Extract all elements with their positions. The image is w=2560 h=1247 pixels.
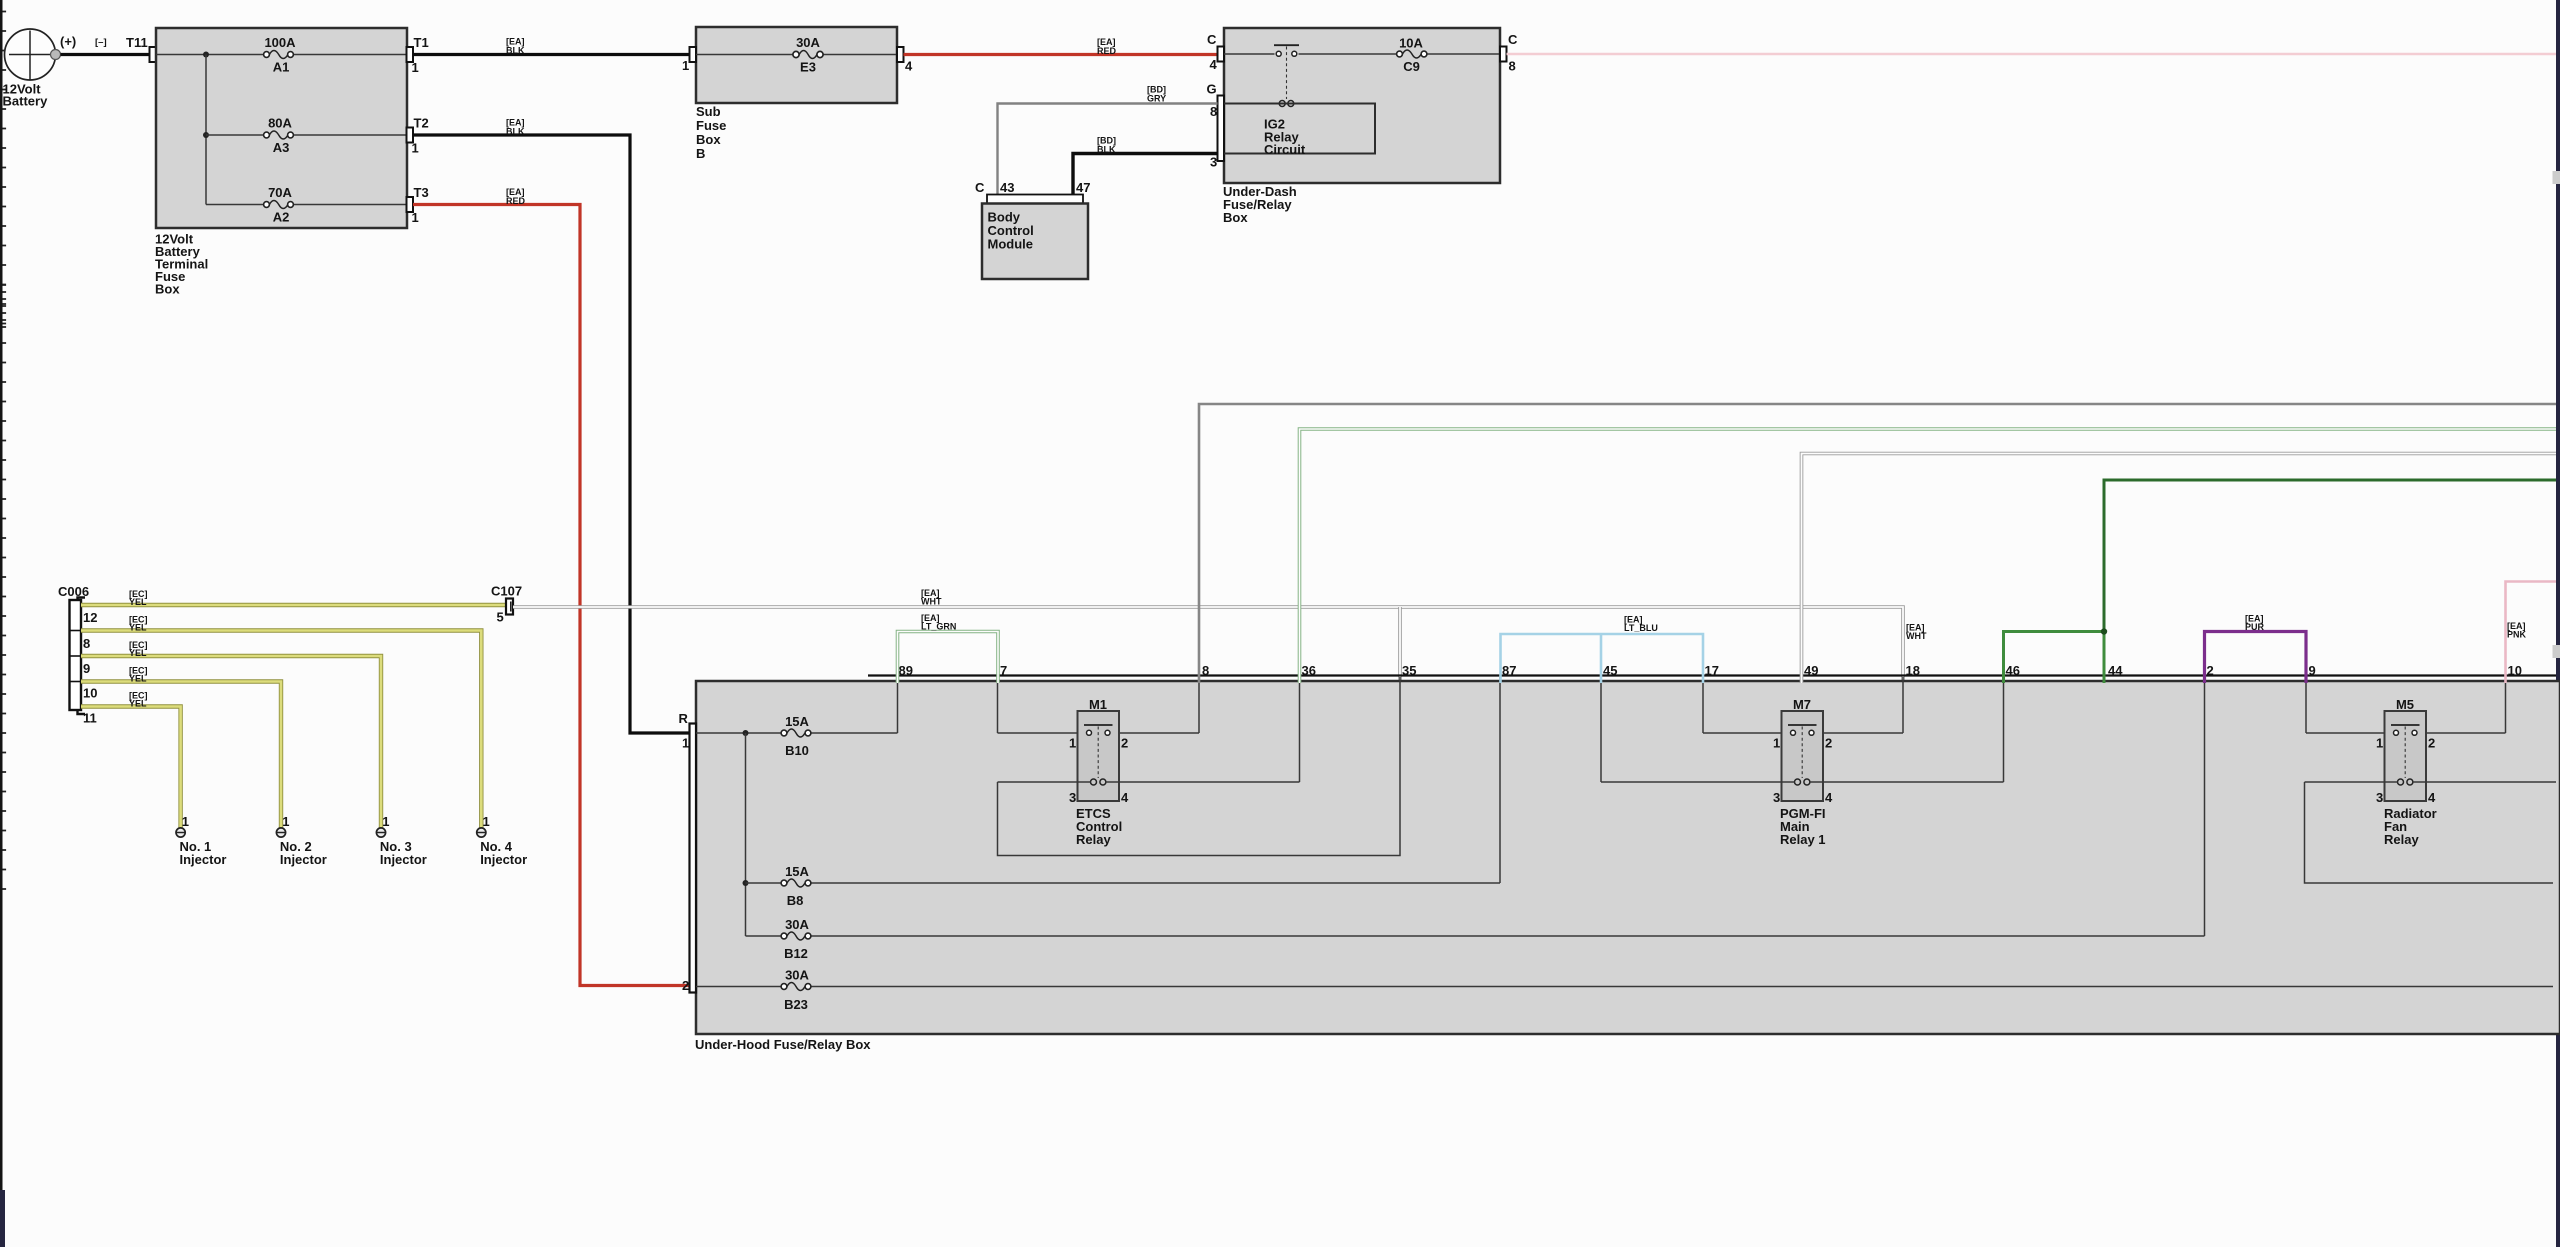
pin labels on bus bar [899, 663, 2522, 678]
svg-text:C107: C107 [491, 584, 522, 599]
connector C006 [58, 584, 97, 726]
svg-text:15A: 15A [785, 864, 809, 879]
svg-text:18: 18 [1906, 663, 1920, 678]
svg-text:4: 4 [2428, 790, 2436, 805]
svg-text:WHT: WHT [921, 597, 942, 607]
svg-text:87: 87 [1502, 663, 1516, 678]
svg-text:11: 11 [83, 711, 97, 726]
wire row A1 [156, 54, 264, 56]
svg-text:2: 2 [2207, 663, 2214, 678]
wire yellow C006-11 to No.1 injector [EC] YEL [81, 691, 181, 829]
svg-text:BLK: BLK [506, 127, 525, 137]
svg-text:8: 8 [1210, 104, 1217, 119]
svg-text:2: 2 [1825, 736, 1832, 751]
pin 1 of Sub Fuse Box [682, 47, 696, 73]
svg-text:A2: A2 [273, 210, 290, 225]
wire fuse row B12 [746, 935, 782, 937]
wire light green loop pin 89 to pin 7 [EA] LT_GRN [898, 613, 999, 683]
wire white pin 49 up to right edge [1802, 454, 2557, 684]
wire yellow C006-8 to No.4 injector [EC] YEL [81, 615, 481, 829]
svg-text:1: 1 [412, 60, 419, 75]
svg-text:1: 1 [1773, 736, 1780, 751]
svg-text:7: 7 [1000, 663, 1007, 678]
relay IG2 contact [1274, 45, 1299, 99]
svg-text:Relay 1: Relay 1 [1780, 832, 1826, 847]
svg-text:1: 1 [282, 814, 289, 829]
No. 4 Injector [477, 814, 527, 867]
box 12Volt Battery Terminal Fuse Box [155, 28, 407, 297]
wire yellow C006-9 to No.3 injector [EC] YEL [81, 640, 381, 828]
fuse A1 100A [264, 35, 297, 75]
svg-text:C: C [1207, 32, 1217, 47]
wire fuse row B10 [696, 732, 781, 734]
svg-text:100A: 100A [264, 35, 296, 50]
svg-text:35: 35 [1402, 663, 1416, 678]
svg-text:Module: Module [988, 237, 1034, 252]
svg-text:30A: 30A [785, 917, 809, 932]
wire riser M7 coil to pin 46 [2003, 677, 2005, 782]
svg-text:C9: C9 [1403, 59, 1420, 74]
wire riser B12 to pin 2 top [2204, 677, 2206, 936]
svg-text:M1: M1 [1089, 697, 1107, 712]
wire E3 to Under-Dash box [EA] RED [904, 37, 1219, 56]
fuse B8 15A [781, 864, 811, 908]
svg-text:2: 2 [2428, 736, 2435, 751]
svg-text:89: 89 [899, 663, 913, 678]
junction dot [203, 132, 209, 138]
svg-text:12: 12 [83, 610, 97, 625]
box Sub Fuse Box B [696, 27, 897, 161]
wire riser coil row to pin 36 [1299, 677, 1301, 782]
pin C 8 of Under-Dash box [1500, 32, 1518, 74]
wire row A2 [206, 204, 264, 206]
svg-text:1: 1 [2376, 736, 2383, 751]
svg-text:3: 3 [2376, 790, 2383, 805]
wire riser B8 to pin 87 [1499, 677, 1501, 883]
internal vertical wire [205, 55, 207, 205]
svg-text:Circuit: Circuit [1264, 142, 1306, 157]
svg-text:BLK: BLK [1097, 145, 1116, 155]
wire pink pin 10 to right edge [EA] PNK [2506, 582, 2557, 684]
svg-text:30A: 30A [796, 35, 820, 50]
svg-text:30A: 30A [785, 968, 809, 983]
svg-text:BLK: BLK [506, 46, 525, 56]
wire T3 to Under-Hood box [EA] RED [413, 187, 690, 986]
svg-text:44: 44 [2108, 663, 2123, 678]
fuse B12 30A [781, 917, 811, 961]
svg-text:PNK: PNK [2507, 630, 2527, 640]
svg-text:17: 17 [1705, 663, 1719, 678]
wire M1 coil row [998, 781, 1091, 783]
box IG2 Relay Circuit [1224, 104, 1375, 158]
wire relay contact row [1224, 53, 1275, 55]
svg-text:1: 1 [382, 814, 389, 829]
svg-text:PUR: PUR [2245, 622, 2265, 632]
svg-text:T2: T2 [414, 116, 429, 131]
svg-text:15A: 15A [785, 714, 809, 729]
svg-text:5: 5 [497, 610, 504, 625]
svg-text:M5: M5 [2396, 697, 2414, 712]
wire M7 coil row [1601, 781, 1795, 783]
wire [BD] BLK from BCM 47 to pin 3 [1073, 136, 1218, 196]
fuse C9 10A [1397, 36, 1427, 75]
svg-text:Injector: Injector [280, 852, 327, 867]
svg-text:8: 8 [83, 636, 90, 651]
svg-text:70A: 70A [268, 185, 292, 200]
svg-text:LT_GRN: LT_GRN [921, 622, 956, 632]
svg-text:G: G [1207, 82, 1217, 97]
svg-text:Injector: Injector [180, 852, 227, 867]
svg-text:9: 9 [83, 661, 90, 676]
svg-text:45: 45 [1603, 663, 1617, 678]
svg-text:36: 36 [1302, 663, 1316, 678]
wire sage green pin 36 to right edge [1300, 429, 2557, 683]
wire M5 coil loop to right edge [2305, 782, 2554, 883]
svg-text:1: 1 [682, 58, 689, 73]
internal vertical wire junctions [745, 733, 747, 936]
svg-text:10: 10 [2508, 663, 2522, 678]
svg-text:Injector: Injector [480, 852, 527, 867]
svg-text:8: 8 [1202, 663, 1209, 678]
svg-text:49: 49 [1804, 663, 1818, 678]
svg-text:Battery: Battery [3, 94, 49, 109]
svg-text:LT_BLU: LT_BLU [1624, 623, 1658, 633]
svg-text:4: 4 [905, 59, 913, 74]
wire M1 coil loop to pin 35 [998, 677, 1401, 856]
svg-text:B8: B8 [787, 893, 804, 908]
svg-text:E3: E3 [800, 60, 816, 75]
svg-text:B12: B12 [784, 946, 808, 961]
svg-text:Relay: Relay [1076, 832, 1111, 847]
wire fuse row B23 [696, 986, 781, 988]
svg-text:Box: Box [696, 132, 721, 147]
wire fuse row B8 [746, 882, 782, 884]
relay M7 PGM-FI Main Relay 1 [1773, 697, 1833, 847]
svg-text:8: 8 [1509, 59, 1516, 74]
wire T2 to Under-Hood box [EA] BLK [413, 118, 690, 734]
svg-text:YEL: YEL [129, 597, 147, 607]
No. 2 Injector [276, 814, 326, 867]
relay IG2 coil [1224, 101, 1375, 107]
fuse B10 15A [781, 714, 811, 758]
svg-text:3: 3 [1773, 790, 1780, 805]
pins R 1 and 2 of Under-Hood box [679, 711, 697, 993]
relay M5 Radiator Fan Relay [2376, 697, 2437, 847]
svg-text:A3: A3 [273, 140, 290, 155]
svg-text:YEL: YEL [129, 622, 147, 632]
wire riser B10 to pin 89 [897, 677, 899, 733]
terminal T3 [407, 185, 429, 225]
svg-text:RED: RED [1097, 46, 1117, 56]
svg-text:B: B [696, 146, 705, 161]
svg-text:3: 3 [1069, 790, 1076, 805]
wire gray pin 8 to right edge [1199, 404, 2556, 683]
svg-text:4: 4 [1825, 790, 1833, 805]
No. 3 Injector [376, 814, 426, 867]
svg-text:C: C [975, 180, 985, 195]
svg-text:2: 2 [682, 978, 689, 993]
svg-text:C: C [1508, 32, 1518, 47]
svg-text:80A: 80A [268, 116, 292, 131]
svg-text:4: 4 [1121, 790, 1129, 805]
box Under-Hood Fuse/Relay Box [695, 676, 2560, 1053]
box Under-Dash Fuse/Relay Box [1223, 28, 1500, 225]
connector C107 [491, 584, 522, 625]
fuse A2 70A [264, 185, 294, 225]
svg-text:2: 2 [1121, 736, 1128, 751]
pin C 4 of Under-Dash box [1207, 32, 1224, 72]
svg-text:WHT: WHT [1906, 631, 1927, 641]
wire [BD] GRY from BCM 43 to G8 [998, 85, 1218, 196]
terminal T2 [407, 116, 429, 156]
pin 4 of Sub Fuse Box [897, 47, 913, 74]
svg-text:47: 47 [1076, 180, 1090, 195]
svg-text:YEL: YEL [129, 698, 147, 708]
svg-text:4: 4 [1210, 57, 1218, 72]
svg-text:46: 46 [2006, 663, 2020, 678]
wire purple loop pin 2 to pin 9 [EA] PUR [2205, 614, 2307, 684]
wire pink from pin C8 to right edge [1507, 53, 2557, 56]
svg-text:1: 1 [412, 141, 419, 156]
svg-text:Injector: Injector [380, 852, 427, 867]
wire inside sub fuse box [696, 54, 793, 56]
battery 12Volt Battery [3, 29, 61, 109]
svg-text:GRY: GRY [1147, 94, 1166, 104]
svg-text:Fuse: Fuse [696, 118, 726, 133]
wire M7 contact row [1703, 732, 1789, 734]
svg-text:(+): (+) [60, 34, 76, 49]
svg-text:YEL: YEL [129, 673, 147, 683]
svg-text:Relay: Relay [2384, 832, 2419, 847]
fuse B23 30A [781, 968, 811, 1013]
svg-text:43: 43 [1000, 180, 1014, 195]
svg-text:3: 3 [1210, 155, 1217, 170]
wire riser pin 17 to M7 contact row [1702, 677, 1704, 733]
svg-text:T1: T1 [414, 35, 429, 50]
svg-text:10A: 10A [1399, 36, 1423, 51]
pin G 8 and 3 of Under-Dash box [1207, 82, 1225, 170]
wire dark green pin 44 junction to right edge [2004, 480, 2557, 683]
wire T1 to Sub Fuse Box [EA] BLK [413, 37, 690, 56]
svg-text:1: 1 [483, 814, 490, 829]
svg-text:1: 1 [1069, 736, 1076, 751]
wire riser pin 45 to M7 coil row [1600, 677, 1602, 782]
wire riser pin 7 to contact row [997, 677, 999, 733]
No. 1 Injector [176, 814, 226, 867]
wire M5 coil row [2305, 781, 2398, 783]
wire yellow C006-10 to No.2 injector [EC] YEL [81, 666, 281, 829]
wire riser M7 contact row to pin 18 [1902, 677, 1904, 733]
relay M1 ETCS Control Relay [1069, 697, 1129, 847]
svg-text:RED: RED [506, 196, 526, 206]
wire riser pin 9 to M5 contact row [2305, 677, 2307, 733]
terminal T1 [407, 35, 429, 75]
svg-text:10: 10 [83, 686, 97, 701]
wire battery to T11 [61, 53, 151, 56]
wire riser M5 contact row to pin 10 [2505, 677, 2507, 733]
wire row A3 [206, 134, 264, 136]
svg-text:YEL: YEL [129, 648, 147, 658]
svg-text:Box: Box [155, 282, 180, 297]
wire riser contact row to pin 8 [1198, 677, 1200, 733]
svg-text:B10: B10 [785, 743, 809, 758]
svg-text:[–]: [–] [95, 37, 107, 48]
svg-text:1: 1 [682, 736, 689, 751]
wire light blue loop pins 87 45 17 [EA] LT_BLU [1501, 615, 1704, 684]
junction dot [203, 52, 209, 58]
svg-text:9: 9 [2309, 663, 2316, 678]
wire M5 contact row [2306, 732, 2393, 734]
svg-text:M7: M7 [1793, 697, 1811, 712]
svg-text:T3: T3 [414, 185, 429, 200]
svg-text:1: 1 [412, 210, 419, 225]
wire white C107 to pin 18 and pin 35 [EA] WHT [513, 588, 1927, 683]
svg-text:1: 1 [182, 814, 189, 829]
svg-text:Box: Box [1223, 210, 1248, 225]
svg-text:B23: B23 [784, 997, 808, 1012]
svg-text:T11: T11 [126, 35, 148, 50]
wire yellow C006-12 to C107 [EC] YEL [81, 589, 506, 607]
svg-text:A1: A1 [273, 60, 290, 75]
svg-text:Sub: Sub [696, 104, 721, 119]
svg-text:Under-Hood Fuse/Relay Box: Under-Hood Fuse/Relay Box [695, 1037, 871, 1052]
svg-text:R: R [679, 711, 689, 726]
fuse A3 80A [264, 116, 294, 156]
box Body Control Module [975, 180, 1090, 279]
fuse E3 30A [793, 35, 823, 75]
wire M1 contact row [998, 732, 1086, 734]
